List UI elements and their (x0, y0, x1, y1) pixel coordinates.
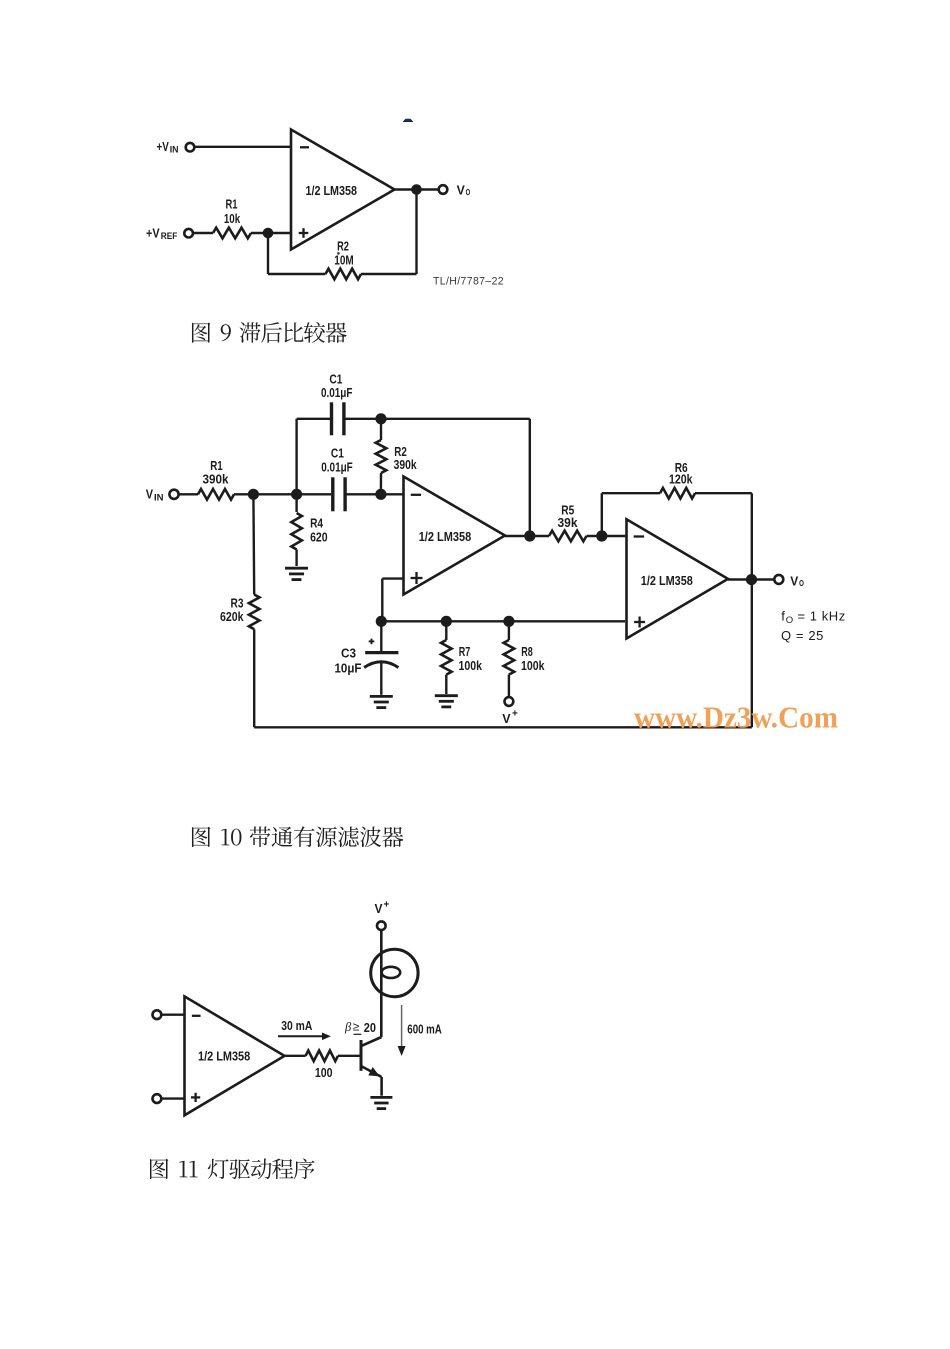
svg-text:600 mA: 600 mA (407, 1021, 442, 1036)
resistor R3 620k vertical (220, 494, 260, 727)
junction node C (R2 bottom) (375, 489, 386, 500)
transistor Q1 (361, 1037, 382, 1096)
node VO output terminal (439, 183, 471, 197)
svg-text:10M: 10M (334, 252, 353, 267)
svg-text:V: V (375, 902, 384, 916)
svg-text:R4: R4 (310, 515, 324, 530)
wire op-amp3 output to resistor (285, 1055, 306, 1057)
svg-text:O: O (786, 615, 793, 626)
wire + input rail y=621 (381, 620, 625, 622)
svg-text:R2: R2 (337, 238, 349, 253)
svg-text:30 mA: 30 mA (281, 1018, 312, 1033)
svg-text:+: + (384, 900, 390, 911)
wire R6 to right vertical (695, 492, 752, 494)
lamp bulb (371, 949, 418, 996)
blue scan artifact mark (403, 119, 414, 122)
wire C1 lower to op-amp inverting input (345, 493, 403, 495)
junction node A (R3 tap) (248, 489, 259, 500)
label 600 mA + arrow (398, 1005, 443, 1056)
svg-text:= 1 kHz: = 1 kHz (798, 608, 846, 623)
ground below R4 (285, 568, 308, 579)
svg-text:β: β (344, 1020, 352, 1034)
wire op-amp2 output (728, 578, 776, 580)
svg-text:10μF: 10μF (335, 661, 362, 675)
svg-text:C1: C1 (331, 446, 344, 461)
svg-text:620k: 620k (220, 609, 244, 624)
svg-text:1/2 LM358: 1/2 LM358 (419, 529, 472, 544)
junction node H (C3) (376, 616, 387, 627)
wire feedback bottom to R2 (361, 273, 417, 275)
junction node G (746, 574, 757, 585)
wire resistor to base (338, 1055, 360, 1057)
junction node F (596, 530, 607, 541)
junction node J (R8) (503, 616, 514, 627)
resistor 100 base (306, 1051, 338, 1080)
wire top row to right vertical (345, 418, 530, 420)
label TL/H/7787-22 (433, 276, 504, 288)
resistor R2 10M feedback (326, 238, 362, 279)
wire feedback vertical from output (415, 190, 417, 275)
ground below C3 (370, 696, 393, 707)
svg-text:120k: 120k (669, 472, 693, 487)
svg-text:www.Dz3w.Com: www.Dz3w.Com (634, 700, 838, 735)
wire op-amp1 output to R5 (505, 535, 549, 537)
resistor R1 10k (213, 197, 251, 239)
svg-text:C1: C1 (329, 371, 342, 386)
node VIN terminal (fig10) (146, 488, 179, 503)
svg-text:20: 20 (364, 1020, 376, 1035)
label 30 mA + arrow (278, 1018, 331, 1040)
caption fig 9 (192, 322, 347, 343)
resistor R6 120k (660, 460, 695, 499)
junction node I (R7) (441, 616, 452, 627)
svg-text:+V: +V (157, 139, 170, 154)
svg-text:≥: ≥ (353, 1020, 360, 1034)
junction node B (C1/R4 tap) (291, 489, 302, 500)
svg-text:0.01μF: 0.01μF (321, 386, 353, 400)
capacitor C1 lower 0.01uF (321, 446, 353, 512)
label fO = 1 kHz (781, 608, 845, 626)
wire R1 to non-inverting input (251, 232, 291, 234)
svg-text:1/2 LM358: 1/2 LM358 (641, 573, 693, 588)
op-amp U2B 1/2 LM358 (627, 519, 729, 638)
svg-text:V: V (457, 183, 466, 197)
svg-text:IN: IN (170, 145, 179, 155)
svg-text:1/2 LM358: 1/2 LM358 (198, 1049, 250, 1064)
svg-text:390k: 390k (394, 457, 418, 472)
wire V+ down through lamp (380, 930, 383, 1037)
svg-text:f: f (781, 608, 785, 623)
wire junction F up and over to R6 (602, 493, 660, 536)
wire VREF to R1 (194, 232, 213, 234)
svg-text:R1: R1 (226, 197, 238, 212)
node +VIN input terminal (157, 139, 195, 155)
op-amp U1 1/2 LM358 (291, 130, 395, 250)
node +VREF input terminal (146, 226, 193, 241)
svg-text:O: O (466, 188, 471, 197)
wire op-amp output (395, 188, 439, 190)
wire right vertical down to bottom rail (751, 493, 753, 727)
op-amp U3 1/2 LM358 (185, 996, 285, 1115)
junction node at + input (263, 228, 274, 239)
svg-text:REF: REF (161, 231, 178, 241)
node V+ terminal below R8 (502, 697, 518, 726)
junction node D (R2 top) (375, 413, 386, 424)
capacitor C1 top 0.01uF (321, 371, 353, 435)
svg-text:R8: R8 (521, 644, 533, 659)
svg-text:V: V (502, 711, 511, 726)
svg-text:+: + (512, 709, 518, 720)
op-amp U2A 1/2 LM358 (404, 477, 506, 595)
svg-text:TL/H/7787–22: TL/H/7787–22 (433, 276, 504, 288)
resistor R5 39k (549, 502, 586, 541)
svg-text:C3: C3 (341, 646, 356, 661)
junction output node (411, 184, 422, 195)
svg-text:100: 100 (315, 1065, 333, 1080)
svg-text:Q = 25: Q = 25 (781, 628, 824, 643)
label Q = 25 (781, 628, 824, 643)
resistor R4 620 vertical (291, 494, 327, 566)
ground below R7 (435, 696, 458, 707)
wire +VIN to op-amp inverting input (196, 146, 292, 148)
svg-text:100k: 100k (521, 658, 545, 673)
resistor R2 390k vertical (376, 419, 418, 495)
wire R2 to + input junction (268, 233, 326, 274)
svg-text:100k: 100k (459, 658, 483, 673)
wire top row left segment (297, 418, 331, 420)
svg-text:V: V (146, 488, 154, 502)
node VO output terminal (fig10) (774, 574, 804, 588)
wire VIN to R1 (179, 493, 198, 495)
resistor R1 390k (198, 458, 234, 500)
node inverting input terminal (153, 1010, 185, 1019)
node V+ terminal (fig11) (375, 900, 390, 931)
caption fig 11 (150, 1158, 315, 1179)
svg-text:+V: +V (146, 226, 160, 241)
wire op-amp1 + input (382, 579, 403, 622)
resistor R8 100k (504, 621, 546, 697)
label beta >= 20 (344, 1020, 376, 1036)
wire right vertical down to op-amp1 output (529, 419, 531, 536)
node non-inverting input terminal (153, 1094, 185, 1103)
svg-text:1/2 LM358: 1/2 LM358 (306, 183, 358, 198)
wire vertical B up to top row (295, 419, 297, 495)
junction node E (top feedback) (524, 530, 535, 541)
svg-text:V: V (790, 574, 799, 588)
ground below transistor emitter (370, 1097, 392, 1108)
svg-text:R1: R1 (210, 458, 223, 473)
svg-text:0.01μF: 0.01μF (321, 460, 353, 474)
wire R1 to C1 lower (234, 493, 331, 495)
svg-text:10k: 10k (224, 211, 241, 226)
caption fig 10 (192, 826, 403, 847)
svg-text:IN: IN (154, 493, 164, 503)
svg-text:390k: 390k (203, 472, 230, 487)
wire R5 to op-amp2 inverting input (587, 535, 627, 537)
svg-text:620: 620 (310, 530, 328, 545)
svg-text:O: O (799, 579, 804, 588)
svg-text:39k: 39k (558, 515, 579, 530)
watermark www.Dz3w.Com (634, 700, 838, 735)
wire bottom feedback rail (254, 726, 752, 728)
resistor R7 100k (441, 621, 483, 694)
capacitor C3 10uF polarized (335, 621, 399, 695)
svg-text:R7: R7 (459, 644, 471, 659)
